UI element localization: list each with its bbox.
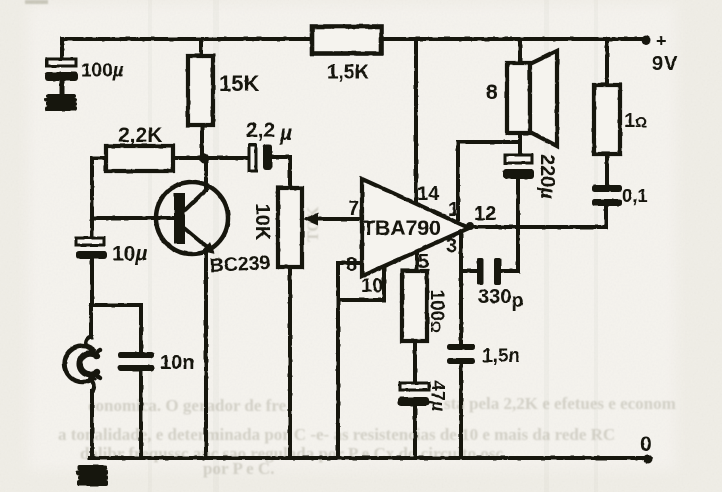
potentiometer 10K [278,188,302,267]
capacitor 1,5n [447,344,475,364]
ground (bottom left) [76,465,108,486]
wire: pin3 down [459,231,463,344]
capacitor 10n [118,352,154,371]
svg-text:2,2: 2,2 [246,119,275,142]
wire: junction to 10n branch [92,305,141,352]
wire: 1R top [605,41,609,85]
svg-text:TBA790: TBA790 [362,216,441,240]
svg-text:2,2K: 2,2K [118,124,162,147]
wire: junction down to mic [89,305,93,337]
svg-text:10n: 10n [160,352,194,374]
svg-text:220µ: 220µ [536,154,558,199]
wire: pin14 to top rail [414,40,418,203]
svg-text:100Ω: 100Ω [426,290,447,333]
resistor 15K [188,56,213,125]
wire: 15K bottom to node A [200,125,204,158]
capacitor 47u [398,383,429,406]
wire: rail corner down to C 100u [60,39,64,59]
ground (under 100u) [44,94,77,111]
wire: emitter down to rail [204,253,208,457]
resistor 2,2K [106,146,173,171]
wire: 1R bottom to 0,1 [605,154,609,185]
svg-text:100µ: 100µ [81,61,124,82]
wire: 15K top [199,40,203,56]
transistor Q1 BC239 circle [156,182,228,254]
svg-text:1,5K: 1,5K [327,62,370,84]
svg-text:10K: 10K [251,204,273,241]
capacitor 330p [477,258,501,285]
node A junction dot [199,153,209,163]
svg-text:15K: 15K [219,71,259,96]
wire: mic to bottom rail [90,391,94,457]
wire: below 10u to junction [90,259,94,305]
wire: base lead [92,216,174,220]
transistor base bar [174,193,185,244]
resistor 1,5K [312,27,382,54]
svg-text:+: + [656,31,667,51]
svg-text:µ: µ [279,122,292,145]
capacitor C 100u electrolytic [45,59,78,95]
transistor emitter arrowhead [202,242,215,254]
ground terminal dot 0 [644,455,653,464]
wire: pot bottom to rail [288,267,292,457]
wire: 220u down to 330p [501,179,518,271]
capacitor 0,1 [592,185,622,206]
svg-text:14: 14 [417,183,440,205]
svg-text:47µ: 47µ [428,381,448,412]
speaker frame [507,63,530,133]
wire: 2,2u cap to pot top [271,157,290,188]
wire: pin8 loop to ground rail [338,263,362,457]
svg-text:12: 12 [474,203,496,225]
wire: bottom ground rail [90,456,648,460]
pot wiper arrowhead [303,213,318,226]
svg-text:10µ: 10µ [112,243,147,266]
wire: top supply rail [62,37,644,41]
wire: left vertical (2,2K left / base / 10u) [90,158,94,238]
wire: output pin12 [469,225,606,229]
capacitor 220u [503,155,534,179]
wire: base bias horizontal [92,156,250,160]
wire: below 1,5n to rail [459,364,463,457]
svg-text:1: 1 [448,199,459,221]
svg-text:0: 0 [640,433,652,456]
supply terminal dot 9V [642,36,651,45]
wire: below 47u to rail [413,406,417,457]
wire: pin5 down [415,252,419,271]
svg-text:7: 7 [348,198,359,220]
svg-text:1,5n: 1,5n [482,346,520,367]
svg-text:5: 5 [418,251,429,273]
wire: output riser to 0,1 [604,206,608,227]
capacitor 10u [76,238,107,259]
transistor collector stroke [184,188,208,211]
wire: pin8 branch to pin10 [338,266,384,300]
wire: pin7 to pot wiper [313,217,362,221]
speaker horn [530,51,557,146]
svg-text:8: 8 [486,81,498,104]
resistor 100R [402,271,427,341]
svg-text:BC239: BC239 [209,252,271,277]
wire: pin1 riser [458,142,519,223]
wire: speaker top [518,41,522,63]
microphone transducer [65,336,100,392]
svg-text:0,1: 0,1 [622,185,648,206]
pin 12 terminal circle [466,222,474,230]
svg-text:9V: 9V [652,53,678,75]
svg-text:8: 8 [346,254,357,276]
svg-text:1Ω: 1Ω [624,110,647,132]
op-amp U1 TBA790 triangle [362,179,469,276]
capacitor 2,2u [249,144,272,171]
wire: 100R to 47u [413,341,417,383]
wire: collector [204,158,208,190]
wire: below 10n to bottom rail [139,371,143,457]
svg-text:3: 3 [446,235,457,257]
wire: speaker bottom to 220u [518,133,522,155]
transistor emitter stroke [184,228,208,248]
resistor 1R [594,85,620,154]
wire: 330p left stub [461,269,477,273]
svg-text:10: 10 [361,275,383,297]
